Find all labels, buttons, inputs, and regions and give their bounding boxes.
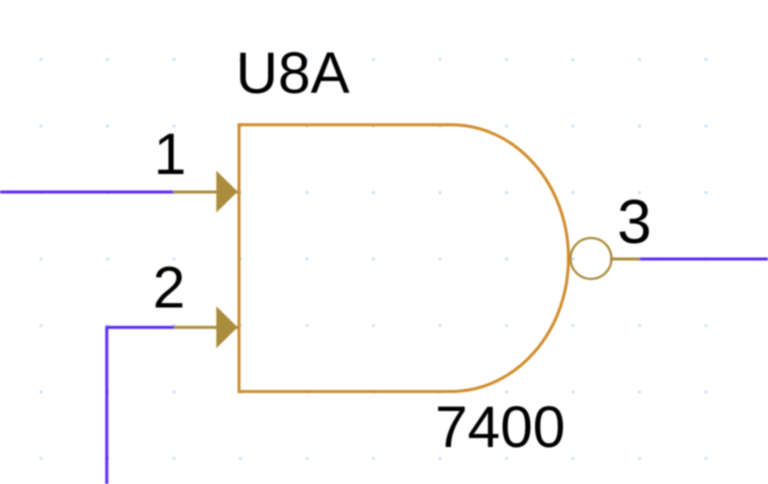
svg-text:1: 1 bbox=[154, 122, 187, 187]
svg-text:3: 3 bbox=[617, 188, 651, 257]
svg-text:U8A: U8A bbox=[236, 41, 350, 106]
svg-text:2: 2 bbox=[153, 256, 186, 321]
svg-text:7400: 7400 bbox=[435, 395, 565, 460]
